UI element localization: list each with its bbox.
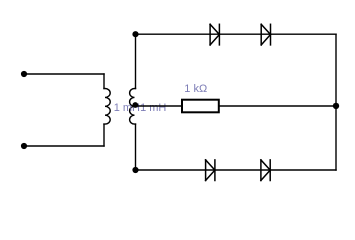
wire primary top vertical (103, 74, 105, 89)
diode D3 (bottom left) (206, 160, 215, 181)
wire top rail (136, 33, 337, 35)
wire center tap to resistor (136, 105, 183, 107)
diode D1 (top left) (210, 24, 219, 45)
inductor L2 secondary winding 1 mH (130, 89, 136, 125)
node center tap junction (132, 102, 138, 108)
node junction bottom of secondary (132, 167, 138, 173)
diode D2 (top right) (261, 24, 270, 45)
node junction top of secondary (132, 31, 138, 37)
node junction right rail middle (333, 103, 339, 109)
node terminal top-left (21, 71, 27, 77)
wire right rail (335, 34, 337, 170)
wire bottom-left primary to terminal (24, 145, 104, 147)
wire secondary top vertical (135, 34, 137, 88)
svg-text:1 mH: 1 mH (140, 102, 166, 114)
inductor L1 primary winding 1 mH (104, 89, 110, 125)
wire top-left primary terminal to bend (24, 73, 104, 75)
node terminal bottom-left (21, 143, 27, 149)
wire bottom rail (136, 169, 337, 171)
wire resistor to right rail (219, 105, 336, 107)
diode D4 (bottom right) (261, 160, 270, 181)
wire secondary bottom vertical (135, 124, 137, 170)
wire primary bottom vertical (103, 124, 105, 146)
svg-text:1 kΩ: 1 kΩ (184, 83, 207, 95)
resistor R1 body (182, 100, 219, 113)
